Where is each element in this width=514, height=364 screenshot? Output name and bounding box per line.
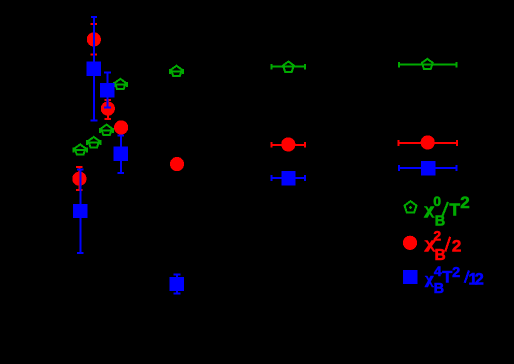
pentagon P7 bbox=[422, 59, 433, 69]
square B6 bbox=[281, 171, 295, 185]
errorbar B2 bbox=[104, 73, 111, 108]
svg-text:4: 4 bbox=[434, 263, 442, 279]
svg-text:2: 2 bbox=[433, 228, 441, 244]
circle R5 bbox=[170, 157, 184, 171]
svg-text:2: 2 bbox=[475, 271, 484, 289]
green dataset chi_B^0/T^2 bbox=[74, 62, 457, 153]
square B5 bbox=[170, 277, 184, 291]
legend label chi_B^4 T^2/12 bbox=[424, 263, 484, 297]
pentagon P1 bbox=[115, 79, 126, 89]
errorbar B3 bbox=[117, 136, 124, 173]
square B2 bbox=[100, 83, 114, 97]
circle R4 bbox=[72, 172, 86, 186]
pentagon P6 errorbar bbox=[271, 64, 304, 70]
pentagon P4 errorbar bbox=[74, 148, 87, 153]
svg-text:B: B bbox=[435, 247, 446, 264]
legend square bbox=[403, 270, 417, 284]
pentagon P5 bbox=[171, 66, 182, 76]
legend label chi_B^2/2 bbox=[423, 228, 461, 265]
svg-text:0: 0 bbox=[433, 193, 441, 209]
square B7 bbox=[421, 161, 435, 175]
circle R7 bbox=[421, 135, 435, 149]
pentagon P6 bbox=[283, 61, 294, 71]
errorbar B1 bbox=[91, 17, 98, 121]
pentagon P2 bbox=[101, 125, 112, 135]
errorbar B6 bbox=[271, 175, 305, 181]
pentagon P3 bbox=[88, 137, 99, 147]
pentagon P1 errorbar bbox=[114, 82, 127, 87]
svg-text:2: 2 bbox=[452, 236, 461, 255]
circle R3 bbox=[114, 120, 128, 134]
blue dataset chi_B^4 T^2/12 bbox=[77, 17, 457, 294]
circle R2 bbox=[101, 102, 115, 116]
circle R6 bbox=[281, 137, 295, 151]
square B4 bbox=[73, 204, 87, 218]
errorbar R1 bbox=[91, 24, 98, 55]
errorbar R4 bbox=[76, 167, 83, 190]
pentagon P5 errorbar bbox=[170, 69, 183, 74]
errorbar R2 bbox=[105, 100, 112, 119]
pentagon P2 errorbar bbox=[100, 128, 113, 133]
svg-text:T: T bbox=[449, 199, 460, 219]
pentagon P4 bbox=[75, 144, 86, 154]
svg-text:2: 2 bbox=[452, 265, 460, 281]
red dataset chi_B^2/2 bbox=[76, 24, 457, 190]
pentagon P7 errorbar bbox=[399, 62, 457, 68]
circle R1 bbox=[87, 32, 101, 46]
errorbar R7 bbox=[399, 140, 457, 146]
legend pentagon bbox=[405, 201, 417, 212]
legend label chi_B^0/T^2 bbox=[423, 193, 470, 230]
svg-text:T: T bbox=[442, 268, 452, 286]
legend circle bbox=[403, 236, 417, 250]
errorbar B5 bbox=[174, 274, 181, 293]
pentagon P3 errorbar bbox=[87, 140, 100, 145]
square B1 bbox=[87, 61, 101, 75]
errorbar B7 bbox=[399, 165, 457, 171]
errorbar B4 bbox=[77, 170, 84, 253]
square B3 bbox=[114, 147, 128, 161]
errorbar R6 bbox=[271, 142, 304, 148]
svg-text:2: 2 bbox=[460, 193, 469, 212]
